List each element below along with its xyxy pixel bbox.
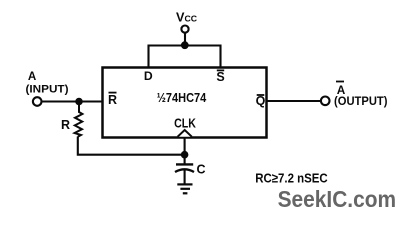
resistor R zigzag [75, 102, 83, 137]
svg-text:A: A [28, 70, 37, 83]
node A input terminal [33, 97, 42, 106]
IC U1 1/2 74HC74 body [103, 68, 267, 138]
wire Vcc lead [184, 33, 186, 47]
svg-text:S: S [216, 70, 224, 84]
svg-text:(OUTPUT): (OUTPUT) [334, 94, 388, 108]
svg-text:Q: Q [256, 94, 266, 108]
svg-text:½74HC74: ½74HC74 [157, 90, 207, 105]
Vcc terminal [181, 26, 188, 33]
svg-text:R: R [61, 118, 70, 132]
node A-bar output terminal [321, 97, 330, 106]
svg-text:CLK: CLK [174, 116, 196, 131]
wire CLK lead [184, 138, 186, 155]
junction dot on Vcc bracket [181, 41, 189, 49]
capacitor C [184, 155, 186, 164]
wire Vcc bracket to D and S pins [149, 46, 221, 69]
ground [177, 183, 192, 185]
junction dot CLK node [181, 151, 189, 159]
svg-text:C: C [197, 163, 206, 177]
clock edge triangle on CLK pin [178, 130, 192, 137]
svg-text:SeekIC.com: SeekIC.com [278, 186, 397, 212]
junction dot input node [75, 98, 83, 106]
wire input A to R pin [43, 100, 104, 102]
svg-text:D: D [144, 69, 153, 83]
svg-text:VCC: VCC [176, 10, 198, 24]
svg-text:(INPUT): (INPUT) [26, 83, 69, 95]
svg-text:RC≥7.2 nSEC: RC≥7.2 nSEC [255, 171, 328, 186]
svg-text:R: R [108, 93, 117, 107]
wire resistor bottom to CLK node [78, 137, 185, 155]
wire Q output [267, 100, 321, 102]
